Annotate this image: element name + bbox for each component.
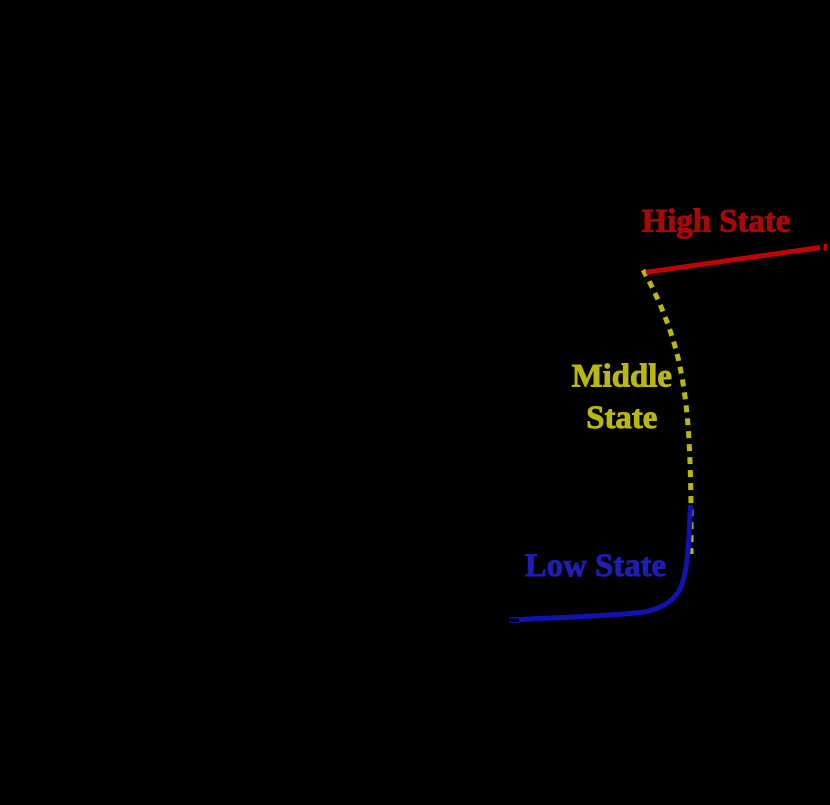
svg-text:Middle: Middle (572, 358, 672, 394)
blue curve tapered left tip (509, 617, 531, 619)
low-branch solid blue curve (519, 505, 691, 620)
svg-text:State: State (586, 400, 657, 436)
red line end fragment near right edge (824, 244, 828, 251)
svg-text:High State: High State (642, 204, 791, 240)
high-branch solid red line (646, 248, 820, 273)
svg-text:Low State: Low State (525, 548, 666, 584)
middle-branch dashed curve (unstable) (643, 270, 691, 554)
